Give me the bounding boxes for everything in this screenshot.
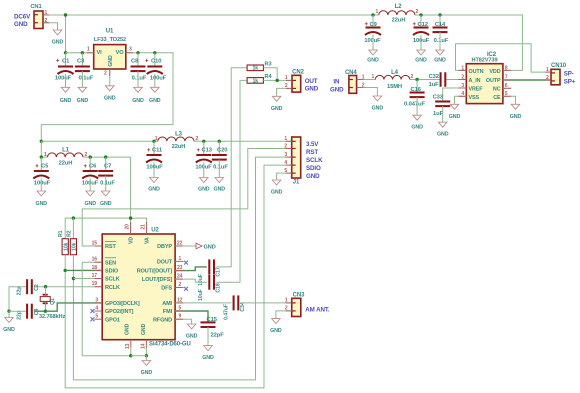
wire L1 out to U2 supply — [83, 157, 131, 218]
wire R2 to SCLK — [72, 255, 74, 279]
wire — [137, 53, 139, 67]
wire R1 to SDIO — [64, 255, 66, 271]
wire — [203, 141, 205, 155]
svg-text:L2: L2 — [395, 4, 403, 10]
pin GPO1 stub — [95, 318, 103, 320]
wire DCLK net — [46, 303, 103, 311]
svg-text:0.1uF: 0.1uF — [434, 38, 449, 44]
wire CE net — [503, 96, 516, 104]
svg-text:DBYP: DBYP — [157, 244, 172, 250]
svg-text:VREF: VREF — [469, 87, 484, 93]
wire — [442, 106, 444, 122]
svg-text:SCLK: SCLK — [306, 157, 323, 164]
ground xtal — [3, 318, 15, 334]
wire CN1 pin2 to gnd — [43, 23, 58, 30]
svg-text:GND: GND — [149, 98, 161, 104]
capacitor C11 plates — [146, 155, 162, 163]
junction R3 R4 — [276, 79, 279, 82]
junction C7 tap — [104, 155, 107, 158]
wire VDD to IC2 pin8 — [415, 15, 522, 70]
junction C11 tap — [152, 140, 155, 143]
svg-text:15MH: 15MH — [387, 84, 402, 90]
svg-text:22uH: 22uH — [392, 18, 406, 24]
svg-text:2: 2 — [196, 136, 199, 142]
wire to gnd — [8, 311, 10, 317]
junction — [72, 216, 75, 219]
svg-text:1uF: 1uF — [429, 82, 440, 88]
svg-text:GND: GND — [104, 95, 116, 101]
ground C1 — [60, 87, 72, 104]
svg-text:C15: C15 — [207, 317, 218, 323]
svg-text:GND: GND — [14, 21, 28, 28]
wire — [81, 53, 83, 67]
svg-text:1k: 1k — [252, 66, 258, 72]
wire RFGND — [175, 319, 192, 324]
resistor R3 — [247, 65, 263, 72]
svg-text:10k: 10k — [72, 242, 78, 250]
svg-text:+: + — [413, 22, 417, 28]
no-connect GPO2 — [91, 309, 95, 313]
wire — [218, 160, 220, 178]
svg-text:1: 1 — [155, 136, 158, 142]
svg-text:GND: GND — [60, 98, 72, 104]
svg-text:RST: RST — [105, 244, 116, 250]
svg-text:DC6V: DC6V — [14, 13, 31, 20]
svg-text:GND: GND — [270, 328, 282, 334]
junction — [153, 51, 156, 54]
wire LOUT — [175, 279, 207, 282]
pin stubs CN2 — [286, 79, 292, 81]
wire NC stub — [503, 87, 512, 89]
svg-text:100uF: 100uF — [150, 76, 167, 82]
svg-text:LF33_TO252: LF33_TO252 — [94, 37, 126, 43]
svg-text:+: + — [84, 164, 88, 170]
svg-text:GND: GND — [415, 58, 427, 64]
pin stubs U1 — [87, 52, 94, 54]
wire SDIO to U2 — [65, 269, 102, 271]
svg-text:AMI: AMI — [162, 301, 172, 307]
ground C10 — [149, 87, 161, 104]
wire DBYP — [175, 245, 196, 247]
svg-text:VA: VA — [145, 237, 151, 244]
capacitor C12 plates — [413, 28, 429, 36]
svg-text:VO: VO — [116, 50, 125, 56]
svg-text:L4: L4 — [391, 70, 399, 76]
ground C5 — [36, 191, 48, 207]
junction SDIO — [63, 269, 66, 272]
wire RST net — [82, 149, 292, 247]
svg-text:100uF: 100uF — [146, 164, 163, 170]
ground C20 — [214, 178, 226, 193]
svg-text:CN3: CN3 — [293, 293, 305, 299]
svg-text:100uF: 100uF — [34, 180, 51, 186]
svg-text:10uF: 10uF — [198, 274, 204, 286]
svg-text:C1: C1 — [62, 59, 70, 65]
wire — [153, 163, 155, 178]
wire SDIO net — [65, 165, 292, 388]
wire — [40, 179, 42, 192]
wire — [372, 15, 374, 28]
wire — [105, 176, 107, 191]
wire — [218, 141, 220, 155]
ground C12 — [415, 50, 427, 64]
wire to L2 left — [373, 14, 379, 16]
wire pin13 to pin14 — [131, 355, 147, 357]
junction C14 tap — [438, 13, 441, 16]
capacitor C2 plates — [27, 279, 32, 294]
svg-text:21: 21 — [141, 224, 147, 230]
wire CN1 to U1 rail — [65, 15, 67, 53]
junction — [64, 13, 67, 16]
wire to U2 VA pin21 — [131, 218, 147, 234]
pin stubs CN3 — [286, 302, 292, 304]
wire OUTP net — [503, 79, 551, 81]
svg-text:GND: GND — [148, 187, 160, 193]
svg-text:GND: GND — [125, 323, 131, 335]
svg-text:GND: GND — [84, 201, 96, 207]
junction C16 tap — [415, 78, 418, 81]
wire C4 to xtal — [34, 310, 46, 312]
pin stubs J1 — [286, 140, 292, 142]
wire — [89, 157, 91, 171]
wire to gnd — [145, 356, 147, 361]
wire — [416, 97, 418, 115]
svg-text:GND: GND — [411, 125, 423, 131]
pin 13 — [130, 340, 132, 348]
svg-text:R4: R4 — [265, 74, 273, 80]
junction — [129, 216, 132, 219]
svg-text:A_IN: A_IN — [469, 78, 481, 84]
ground C15 — [202, 346, 214, 362]
svg-text:HT82V739: HT82V739 — [472, 57, 498, 63]
svg-text:J1: J1 — [293, 180, 300, 186]
svg-text:C32: C32 — [429, 74, 439, 80]
junction 3.3V split — [40, 140, 43, 143]
wire C32 to A_IN — [446, 79, 466, 81]
wire — [40, 157, 42, 171]
wire VI — [66, 52, 94, 54]
capacitor C4 plates — [27, 304, 32, 319]
svg-text:2: 2 — [411, 74, 414, 80]
svg-text:GND: GND — [132, 98, 144, 104]
wire — [372, 35, 374, 50]
svg-text:2: 2 — [416, 9, 419, 15]
svg-text:OUTP: OUTP — [486, 78, 501, 84]
wire CN3 pin2 gnd — [276, 311, 292, 319]
ground CE — [510, 104, 522, 120]
svg-text:0.1uF: 0.1uF — [79, 76, 94, 82]
svg-text:1: 1 — [376, 9, 379, 15]
pin GPO2 stub — [95, 310, 103, 312]
svg-text:GND: GND — [434, 58, 446, 64]
svg-text:GND: GND — [3, 327, 15, 333]
inductor L1 — [48, 153, 84, 157]
svg-text:C8: C8 — [131, 59, 139, 65]
svg-text:+: + — [365, 22, 369, 28]
wire 3.3V to L3 — [41, 140, 158, 142]
ground C9 — [367, 50, 379, 64]
capacitor C13 plates — [196, 155, 212, 163]
svg-text:GND: GND — [52, 40, 64, 46]
svg-text:GND: GND — [449, 114, 461, 120]
svg-text:SEN: SEN — [105, 260, 116, 266]
svg-text:FMI: FMI — [163, 309, 173, 315]
svg-text:LOUT/[DFS]: LOUT/[DFS] — [142, 277, 172, 283]
resistor R1 — [62, 239, 69, 255]
junction C12 tap — [419, 13, 422, 16]
wire U1 gnd pin — [109, 69, 111, 86]
pin 14 — [145, 340, 147, 348]
svg-text:GND: GND — [100, 201, 112, 207]
svg-text:+: + — [147, 148, 151, 154]
svg-text:C9: C9 — [370, 22, 378, 28]
svg-text:GND: GND — [198, 187, 210, 193]
svg-text:R2: R2 — [66, 230, 72, 237]
svg-text:0.1uF: 0.1uF — [213, 164, 228, 170]
wire — [439, 32, 441, 50]
wire — [420, 35, 422, 50]
svg-text:1k: 1k — [252, 78, 258, 84]
svg-text:13: 13 — [125, 343, 131, 349]
svg-text:NC: NC — [493, 87, 501, 93]
svg-text:SDIO: SDIO — [105, 269, 119, 275]
svg-text:OUTN: OUTN — [469, 69, 484, 75]
connector CN10 — [551, 69, 560, 85]
no-connect GPO1 — [91, 317, 95, 321]
svg-text:IN: IN — [333, 79, 340, 86]
svg-text:C10: C10 — [151, 59, 161, 65]
wire to U2 VD pin20 — [130, 218, 132, 234]
wire AMI — [175, 302, 231, 304]
pin stubs U2 right — [175, 245, 183, 247]
pin DOUT stub — [175, 260, 183, 262]
svg-text:22uH: 22uH — [59, 160, 73, 166]
svg-text:3: 3 — [129, 47, 132, 53]
wire SEN stub — [82, 261, 102, 263]
wire — [439, 15, 441, 28]
svg-text:VDD: VDD — [489, 69, 500, 75]
svg-text:RCLK: RCLK — [105, 285, 120, 291]
pin 21 stub — [146, 222, 148, 234]
svg-text:SCLK: SCLK — [105, 277, 120, 283]
svg-text:0.47uF: 0.47uF — [224, 304, 230, 320]
svg-text:C14: C14 — [435, 22, 446, 28]
svg-text:R1: R1 — [58, 230, 64, 237]
wire pin13 — [130, 348, 132, 356]
ground U2 — [141, 361, 153, 377]
wire SCLK to U2 — [73, 278, 102, 280]
svg-text:RST: RST — [306, 149, 318, 156]
svg-text:3.5V: 3.5V — [306, 141, 319, 148]
capacitor C5 plates — [33, 171, 49, 179]
ground C11 — [148, 178, 160, 193]
regulator U1 body — [94, 45, 126, 69]
svg-text:GND: GND — [437, 132, 449, 138]
wire VREF net — [443, 88, 467, 101]
svg-text:U2: U2 — [151, 228, 159, 234]
svg-text:C20: C20 — [217, 148, 227, 154]
svg-text:SP-: SP- — [564, 71, 574, 78]
capacitor C18 plates — [209, 275, 214, 290]
pin stubs CN4 — [357, 79, 363, 81]
svg-text:0.047uF: 0.047uF — [404, 101, 425, 107]
capacitor C33 plates — [435, 102, 450, 107]
svg-text:1: 1 — [372, 74, 375, 80]
wire C17 to R3 — [217, 68, 248, 267]
wire SCLK net — [73, 157, 291, 380]
svg-text:+: + — [197, 148, 201, 154]
wire R3 out — [263, 68, 277, 81]
wire — [207, 327, 209, 346]
wire — [154, 74, 156, 87]
wire J1 gnd — [277, 173, 292, 180]
wire — [153, 141, 155, 155]
wire VCC rail top — [43, 14, 373, 16]
svg-text:C6: C6 — [89, 164, 97, 170]
capacitor C34 plates — [234, 295, 239, 310]
svg-text:0.1uF: 0.1uF — [132, 76, 147, 82]
junction xtal top — [44, 285, 47, 288]
pin DFS stub — [175, 287, 183, 289]
ground CN1 — [52, 30, 64, 46]
svg-text:L3: L3 — [175, 132, 183, 138]
inductor L4 — [375, 75, 410, 79]
wire RCLK to U2 — [34, 286, 102, 288]
capacitor C16 plates — [410, 93, 425, 98]
svg-text:GND: GND — [306, 173, 320, 180]
pin stubs CN10 — [546, 71, 552, 73]
junction — [136, 51, 139, 54]
ground C13 — [198, 178, 210, 193]
ground C16 — [411, 115, 423, 131]
connector CN3 — [292, 298, 301, 316]
wire — [81, 71, 83, 87]
ground C33 — [437, 122, 449, 138]
junction xtal bottom — [44, 310, 47, 313]
svg-text:GPO1: GPO1 — [105, 317, 120, 323]
svg-text:AM ANT.: AM ANT. — [305, 307, 330, 314]
svg-text:GND: GND — [330, 87, 344, 94]
svg-text:GND: GND — [36, 201, 48, 207]
svg-text:RFGND: RFGND — [153, 317, 172, 323]
svg-text:22uH: 22uH — [172, 144, 186, 150]
svg-text:L1: L1 — [62, 148, 70, 154]
svg-text:10uF: 10uF — [198, 289, 204, 301]
wire to L1 left — [41, 156, 47, 158]
svg-text:C17: C17 — [216, 267, 222, 276]
junction — [81, 51, 84, 54]
junction C5 tap — [40, 155, 43, 158]
wire CN4 pin1 to L4 — [357, 79, 376, 81]
capacitor C9 plates — [365, 28, 381, 36]
ground RFGND — [186, 324, 198, 340]
junction pin13 — [129, 354, 132, 357]
svg-text:CN1: CN1 — [30, 4, 42, 10]
connector CN2 — [292, 75, 301, 92]
wire — [416, 80, 418, 93]
wire C4 left — [9, 310, 26, 312]
svg-text:VI: VI — [97, 50, 103, 56]
pin 20 stub — [130, 222, 132, 234]
svg-text:C34: C34 — [240, 302, 246, 311]
wire — [203, 163, 205, 178]
wire — [89, 179, 91, 192]
capacitor C15 plates — [201, 322, 216, 327]
svg-text:CN2: CN2 — [292, 70, 304, 76]
wire OUTN net — [456, 44, 552, 72]
svg-text:22pF: 22pF — [211, 332, 225, 338]
svg-text:GND: GND — [305, 85, 319, 92]
ground U1 — [104, 86, 116, 102]
svg-text:C7: C7 — [104, 164, 111, 170]
pin stubs U2 left — [94, 245, 102, 247]
no-connect DOUT — [184, 261, 188, 265]
wire FMI — [175, 311, 208, 322]
capacitor C1 plates — [58, 67, 74, 75]
svg-text:C3: C3 — [77, 59, 85, 65]
wire — [420, 15, 422, 28]
svg-text:14: 14 — [140, 343, 146, 349]
ground C6 — [84, 191, 96, 207]
svg-text:GND: GND — [141, 370, 153, 376]
svg-text:100uF: 100uF — [55, 76, 72, 82]
svg-text:ROUT/[DOUT]: ROUT/[DOUT] — [137, 269, 173, 275]
svg-text:C33: C33 — [433, 94, 444, 100]
junction C20 tap — [218, 140, 221, 143]
svg-text:Q1: Q1 — [50, 298, 56, 305]
wire down to L1 — [40, 141, 42, 157]
capacitor C7 plates — [98, 171, 113, 176]
svg-text:Si4734-D60-GU: Si4734-D60-GU — [149, 342, 191, 348]
svg-text:C11: C11 — [152, 148, 163, 154]
connector J1 — [292, 137, 301, 178]
svg-text:GPO2/[INT]: GPO2/[INT] — [105, 309, 134, 315]
amplifier IC2 body — [466, 64, 503, 104]
svg-text:GND: GND — [367, 58, 379, 64]
wire — [137, 71, 139, 87]
svg-text:C2: C2 — [34, 284, 40, 291]
ground VSS — [449, 104, 461, 120]
svg-text:32.768kHz: 32.768kHz — [39, 314, 65, 320]
svg-text:10k: 10k — [63, 242, 69, 250]
junction pin14 — [145, 354, 148, 357]
svg-text:GND: GND — [372, 106, 384, 112]
wire — [154, 53, 156, 67]
svg-text:C12: C12 — [418, 22, 428, 28]
svg-text:1: 1 — [44, 152, 47, 158]
svg-text:U1: U1 — [106, 29, 114, 35]
wire VO 3.3V loop — [41, 53, 173, 142]
capacitor C8 plates — [131, 67, 146, 72]
wire CN4 pin2 to gnd — [357, 88, 378, 97]
svg-text:2: 2 — [85, 152, 88, 158]
svg-text:0.1uF: 0.1uF — [100, 180, 115, 186]
svg-text:R3: R3 — [265, 62, 272, 68]
svg-text:VD: VD — [129, 237, 135, 244]
svg-text:+: + — [56, 59, 60, 65]
ground CN3 — [270, 319, 282, 335]
IC U2 body — [102, 234, 175, 340]
svg-text:OUT: OUT — [305, 78, 318, 85]
junction xtal gnd — [7, 310, 10, 313]
wire CN2 pin2 gnd — [277, 88, 292, 96]
inductor L2 — [379, 11, 415, 15]
wire — [65, 74, 67, 87]
resistor R2 — [70, 239, 77, 255]
svg-text:DFS: DFS — [161, 286, 172, 292]
svg-text:SP+: SP+ — [564, 79, 576, 86]
svg-text:GND: GND — [202, 355, 214, 361]
